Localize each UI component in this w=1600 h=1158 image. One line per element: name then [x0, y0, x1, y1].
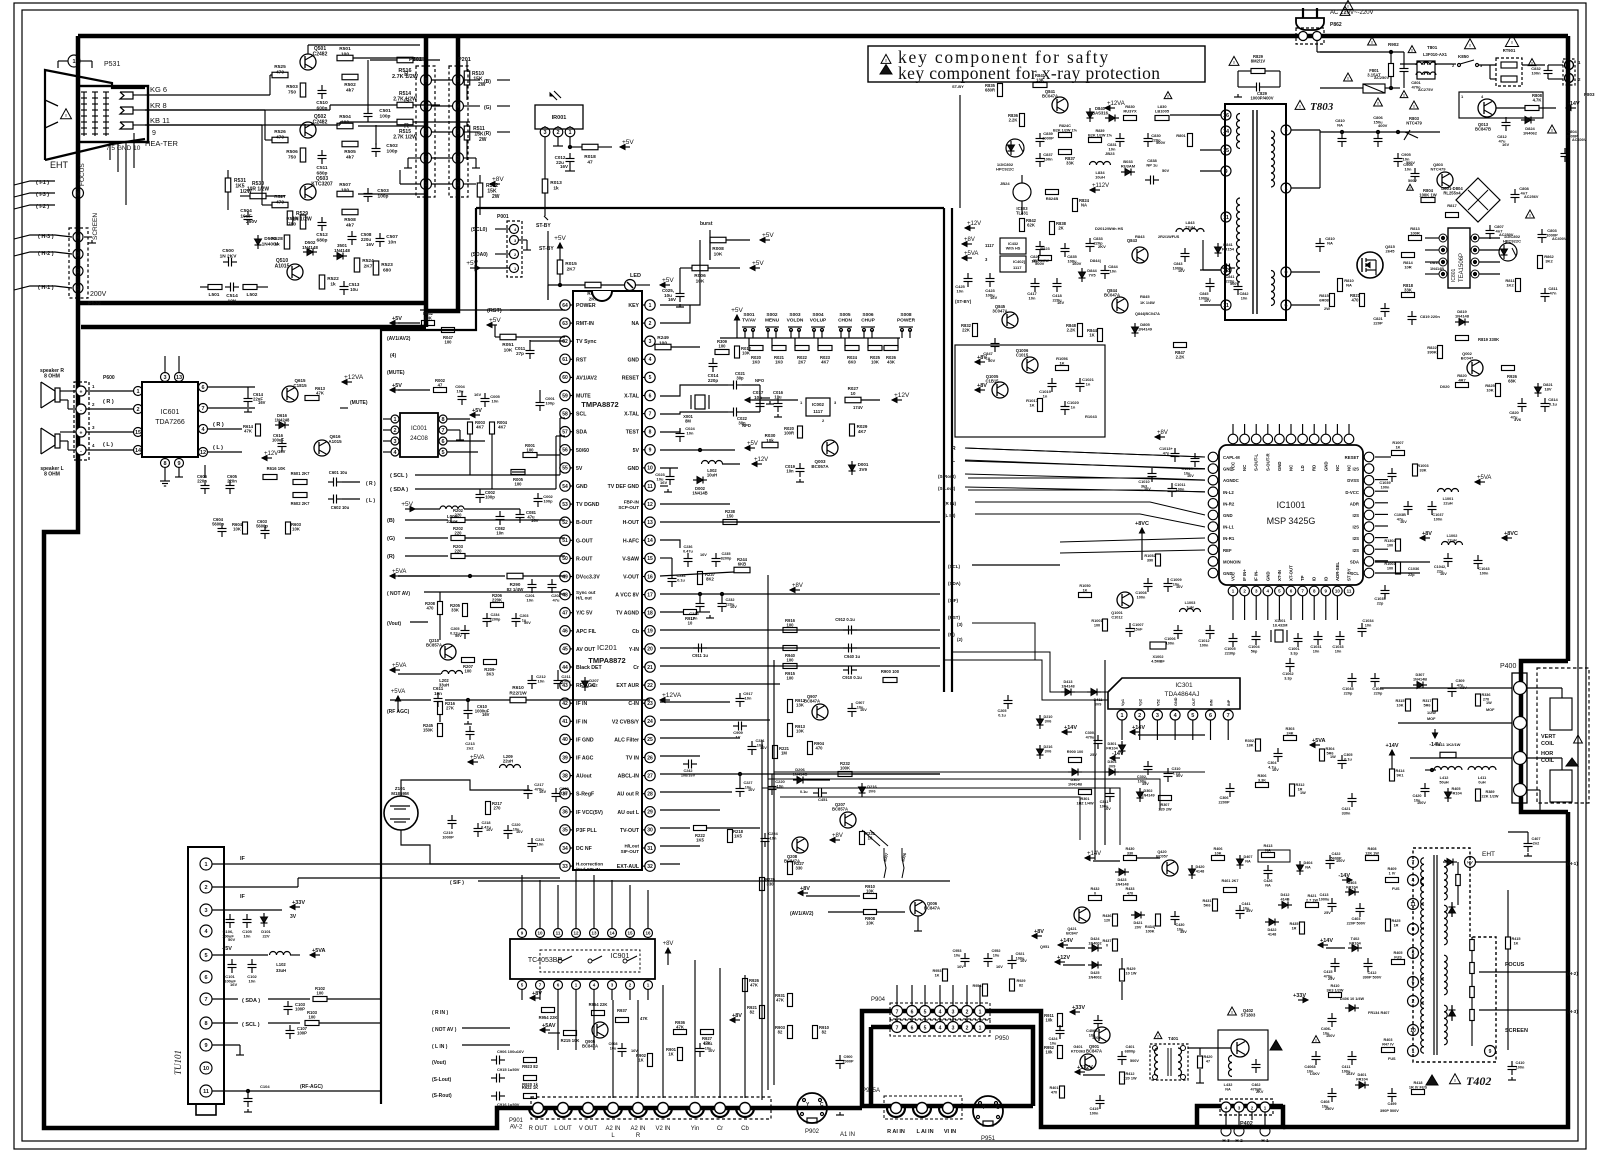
pwr +14V defl: [1085, 851, 1120, 861]
svg-text:IC001: IC001: [411, 426, 428, 432]
IC201 pin 23 C-IN: [628, 698, 655, 708]
pwr +8V r936: [730, 1013, 742, 1023]
resistor R421: [1306, 894, 1319, 908]
P402 pin 1: [1260, 1102, 1270, 1112]
resistor R810: [1338, 278, 1355, 292]
wire bus Rout: [965, 448, 1205, 469]
T402 pin 10: [1408, 1025, 1419, 1036]
svg-text:S006: S006: [862, 312, 874, 318]
label P901: [509, 1118, 524, 1131]
resistor R303: [1284, 727, 1297, 741]
T803 label: [1295, 100, 1334, 113]
cap C1009: [1164, 578, 1184, 592]
svg-text:9K1: 9K1: [1397, 773, 1404, 777]
svg-text:56: 56: [562, 448, 568, 454]
svg-text:100: 100: [1387, 566, 1393, 570]
T803 pin14: [1221, 126, 1231, 136]
svg-text:7 5 GND 10: 7 5 GND 10: [106, 145, 141, 152]
resistor R051: [495, 325, 565, 353]
svg-text:R AI IN: R AI IN: [887, 1129, 905, 1135]
wire msp right scl: [1375, 572, 1420, 574]
IC301 pin 4: [1170, 697, 1180, 740]
svg-text:L OUT: L OUT: [554, 1126, 572, 1132]
svg-text:24K: 24K: [1287, 731, 1294, 735]
svg-text:KTC3207: KTC3207: [311, 182, 333, 188]
IC1001 right pin 3: [1345, 487, 1373, 497]
cap C826: [1030, 241, 1044, 266]
svg-text:47p: 47p: [1163, 451, 1170, 455]
cap C451: [800, 789, 828, 803]
svg-text:2: 2: [456, 156, 459, 162]
connector P803: [1548, 59, 1595, 97]
wire z101 routing: [401, 830, 560, 864]
IC1001 top pin 10: [1344, 424, 1354, 471]
IC1001 top pin 8: [1321, 424, 1331, 471]
resistor R205: [450, 603, 468, 617]
net stby psu: [955, 299, 972, 304]
svg-text:+12V: +12V: [264, 451, 278, 457]
svg-text:IC901: IC901: [611, 953, 630, 960]
resistor R317: [1422, 699, 1437, 721]
svg-text:MUTE: MUTE: [576, 394, 591, 400]
diode D404: [1297, 861, 1314, 875]
svg-text:+5V: +5V: [554, 235, 566, 242]
diode D501: [333, 243, 350, 260]
IC1001 right pin 1: [1353, 464, 1374, 474]
svg-text:50: 50: [562, 556, 568, 562]
P501 pin3: [421, 127, 453, 138]
pwr q951 8v: [1032, 929, 1049, 949]
IC201 pin 7 X-TAL: [624, 408, 655, 418]
net RST flag: [487, 308, 540, 314]
P001 pin scl: [471, 225, 519, 234]
cap C803: [1526, 210, 1567, 243]
svg-text:680R: 680R: [985, 88, 995, 93]
svg-text:2: 2: [1138, 713, 1141, 719]
svg-text:10uF: 10uF: [240, 213, 251, 219]
svg-text:ALC Filter: ALC Filter: [614, 737, 639, 743]
svg-text:HPC922C: HPC922C: [1503, 239, 1521, 244]
svg-text:10n: 10n: [1313, 649, 1320, 653]
svg-text:RST: RST: [576, 357, 587, 363]
svg-text:500V: 500V: [1130, 1059, 1139, 1063]
svg-text:18K: 18K: [1247, 743, 1254, 747]
svg-text:CHDN: CHDN: [838, 317, 852, 323]
resistor R841: [1033, 73, 1047, 88]
T803 pin11a: [1221, 212, 1231, 222]
svg-text:(RST): (RST): [487, 308, 502, 314]
transistor Q013: [1459, 92, 1543, 132]
wire TVIN: [660, 755, 700, 757]
svg-text:120: 120: [1104, 918, 1110, 922]
svg-text:16V: 16V: [366, 242, 374, 247]
svg-text:IF AGC: IF AGC: [576, 756, 594, 762]
diode D413: [1061, 680, 1075, 696]
svg-text:16V: 16V: [660, 480, 667, 485]
svg-text:3V9: 3V9: [1109, 764, 1116, 768]
IC901 bottom pin 5: [608, 981, 617, 1001]
net SCL msp: [948, 564, 1060, 569]
svg-text:400V: 400V: [1378, 123, 1388, 128]
resistor R102: [313, 986, 380, 1002]
wire msp inl1: [1060, 538, 1205, 542]
svg-text:+8V: +8V: [492, 176, 504, 183]
svg-text:RESET: RESET: [1345, 455, 1360, 460]
svg-text:4R7: 4R7: [1458, 378, 1466, 383]
svg-text:10n: 10n: [786, 469, 794, 474]
svg-text:5: 5: [456, 78, 459, 84]
wire b line: [380, 57, 426, 59]
wire r line: [358, 193, 426, 195]
resistor R411: [1436, 742, 1461, 758]
svg-text:100: 100: [527, 448, 535, 453]
warn tri t801: [1452, 35, 1519, 64]
svg-text:10n: 10n: [745, 696, 752, 701]
svg-text:R018: R018: [584, 154, 596, 160]
svg-text:0: 0: [1412, 927, 1415, 933]
IC1001 left pin 7: [1208, 533, 1235, 543]
svg-text:P402: P402: [1240, 1121, 1253, 1127]
diode D216: [859, 783, 878, 797]
connector P904 dashed: [871, 997, 990, 1019]
cap C022: [728, 408, 751, 429]
diode D401: [1355, 1073, 1369, 1089]
svg-text:4K7: 4K7: [476, 425, 484, 430]
svg-text:16V: 16V: [748, 788, 755, 792]
IC1001 bottom pin 5: [1275, 570, 1285, 596]
svg-text:2200P: 2200P: [1219, 800, 1230, 804]
svg-text:BC057A: BC057A: [811, 464, 829, 469]
svg-text:5V: 5V: [576, 466, 583, 472]
net SCL flag: [390, 434, 470, 479]
svg-text:(S-Rout): (S-Rout): [432, 1093, 452, 1099]
vert coil label: [1541, 734, 1582, 747]
cap C024: [660, 426, 696, 442]
speaker L: [40, 428, 63, 478]
svg-text:P400: P400: [1500, 663, 1516, 670]
svg-text:+5V: +5V: [222, 946, 232, 952]
P950 pin 2: [962, 1022, 973, 1033]
svg-text:H-2: H-2: [1235, 1138, 1243, 1143]
svg-text:ABCL-IN: ABCL-IN: [618, 774, 640, 780]
label FOCUS vertical: [79, 163, 86, 186]
wire heavy top rail: [78, 34, 1568, 39]
resistor R820: [1440, 373, 1469, 389]
bridge D801-D804: [1441, 178, 1500, 222]
resistor R015: [557, 260, 577, 287]
svg-text:L501: L501: [209, 292, 220, 298]
TU101 pin7 wire: [212, 998, 310, 1004]
P501 pin4: [421, 101, 453, 112]
net H-3 p402: [1221, 1112, 1231, 1143]
TEA1506P left pin 0: [1425, 234, 1447, 242]
wire 12va rail: [390, 692, 682, 703]
resistor R249: [655, 335, 700, 350]
transistor Q502: [300, 114, 328, 138]
svg-text:( NOT AV ): ( NOT AV ): [432, 1027, 457, 1033]
svg-text:AC400V: AC400V: [1572, 138, 1587, 142]
diode D407: [1237, 855, 1253, 869]
svg-text:8: 8: [441, 417, 444, 423]
svg-text:680p: 680p: [317, 237, 328, 243]
IC201 pin 10 GND: [627, 463, 655, 473]
svg-text:4k7: 4k7: [346, 154, 354, 160]
TEA1506P left pin 3: [1425, 270, 1447, 278]
svg-text:100V: 100V: [1326, 1034, 1335, 1038]
IC901 top pin 7: [644, 890, 653, 938]
resistor R811: [1505, 278, 1520, 292]
svg-text:33K: 33K: [1066, 161, 1074, 166]
svg-text:100n: 100n: [1531, 71, 1541, 76]
cap C412: [1363, 958, 1382, 979]
jack P905A 2: [913, 1103, 931, 1118]
IC201 name: [581, 400, 625, 665]
svg-text:BC847B: BC847B: [1475, 127, 1491, 132]
svg-text:10n: 10n: [388, 239, 396, 245]
svg-text:1n: 1n: [1043, 394, 1048, 399]
svg-text:C906 100u16V: C906 100u16V: [497, 1049, 524, 1054]
svg-text:( R ): ( R ): [103, 399, 114, 405]
T402 primary winding: [1421, 858, 1424, 1053]
svg-text:13K: 13K: [796, 703, 804, 708]
net MUTE flag: [387, 370, 405, 376]
svg-text:35V: 35V: [1180, 930, 1187, 934]
wire heavy CRT bus v2: [426, 36, 458, 311]
svg-text:470: 470: [276, 69, 284, 75]
svg-text:+112V: +112V: [1092, 183, 1109, 189]
regulator IC432: [1000, 238, 1026, 254]
svg-text:16: 16: [647, 574, 653, 580]
diode D616: [275, 413, 290, 429]
svg-text:P501: P501: [409, 57, 422, 63]
resistor R818: [1402, 283, 1415, 298]
IC1001 right pin 2: [1347, 475, 1374, 485]
cap C407: [1508, 832, 1541, 856]
svg-text:10n: 10n: [770, 836, 777, 841]
svg-text:+5V: +5V: [466, 260, 478, 267]
resistor R900b: [1067, 750, 1083, 763]
svg-text:220 1W: 220 1W: [1123, 1076, 1137, 1080]
svg-text:Q844|BC047A: Q844|BC047A: [1135, 312, 1160, 316]
svg-text:AV-2: AV-2: [510, 1125, 523, 1131]
svg-text:1000P: 1000P: [442, 835, 454, 840]
cap C1033: [1332, 631, 1344, 653]
svg-text:1000u: 1000u: [1319, 897, 1330, 901]
transistor Q210: [426, 638, 456, 660]
wire crt kr row: [145, 110, 272, 140]
svg-text:16V: 16V: [474, 392, 481, 397]
IC601 pin14: [86, 446, 143, 455]
warn tri q402b: [1270, 1040, 1282, 1050]
svg-text:XT-IN: XT-IN: [1277, 570, 1282, 581]
svg-text:+8V: +8V: [1422, 531, 1432, 537]
resistor R927: [701, 1030, 714, 1046]
svg-text:9: 9: [1489, 1049, 1492, 1055]
resistor R227: [788, 861, 805, 875]
svg-text:48: 48: [562, 592, 568, 598]
svg-text:H-AFC: H-AFC: [623, 538, 639, 544]
svg-text:A1 IN: A1 IN: [840, 1132, 855, 1138]
IC301 pin 1: [1117, 699, 1127, 740]
cap C807: [1486, 224, 1514, 239]
svg-text:ST-BY: ST-BY: [952, 84, 964, 89]
svg-text:EXT-AUL: EXT-AUL: [617, 864, 640, 870]
IC201 pin 60 AV1/AV2: [560, 372, 597, 382]
wire gnd pin10: [660, 467, 678, 469]
svg-text:3V9: 3V9: [859, 467, 868, 472]
svg-text:HOR: HOR: [1541, 751, 1553, 757]
IC201 pin 8 TEST: [626, 427, 655, 437]
wire vsaw: [660, 558, 672, 573]
svg-text:GND: GND: [1223, 513, 1233, 518]
svg-text:IR001: IR001: [552, 115, 567, 121]
svg-text:+33V: +33V: [1293, 993, 1306, 999]
svg-text:(ST-BY): (ST-BY): [955, 299, 972, 304]
svg-text:10K: 10K: [1397, 703, 1404, 707]
net H-2 fly: [1479, 971, 1578, 977]
wire diag buses: [862, 830, 888, 846]
svg-text:+5V: +5V: [762, 232, 774, 239]
svg-text:10K: 10K: [866, 921, 874, 926]
svg-text:47K: 47K: [316, 391, 324, 396]
cap C831: [1107, 133, 1124, 152]
resistor R414: [1386, 743, 1406, 781]
svg-text:47: 47: [438, 383, 443, 388]
CRT cathode KB pin: [120, 122, 145, 129]
cap C011: [515, 340, 535, 359]
pwr +8V q208: [830, 833, 843, 843]
resistor R003: [468, 420, 486, 434]
svg-text:5: 5: [424, 78, 427, 84]
cap C217: [524, 782, 547, 799]
resistor R516: [370, 57, 440, 80]
svg-text:1: 1: [204, 862, 207, 868]
svg-text:S-OUT-R: S-OUT-R: [1265, 452, 1270, 471]
cap C805: [1403, 162, 1419, 183]
IR001 pin3: [540, 126, 550, 137]
minidin P902: [797, 1093, 827, 1135]
svg-text:12K 1W: 12K 1W: [1365, 851, 1379, 855]
pwr +5VA dvcc: [390, 569, 440, 579]
svg-text:C451: C451: [818, 797, 828, 802]
IC1001 top pin 9: [1333, 424, 1343, 471]
net R flag: [387, 554, 448, 560]
svg-text:50V: 50V: [1176, 774, 1183, 778]
cap C835: [1061, 243, 1082, 266]
resistor R021: [772, 346, 786, 365]
svg-text:R47 IV: R47 IV: [1382, 1042, 1394, 1046]
IC201 pin 54 GND: [560, 481, 588, 491]
svg-text:P001: P001: [497, 214, 509, 220]
wire EXT AUR: [660, 683, 780, 685]
svg-text:(SDA0): (SDA0): [471, 252, 488, 258]
transistor Q421: [1066, 907, 1090, 935]
wire q501 col: [308, 45, 420, 54]
IC001 pin2: [383, 426, 399, 434]
svg-text:R015: R015: [565, 261, 577, 267]
resistor R006: [692, 260, 764, 284]
svg-text:9: 9: [649, 448, 652, 454]
svg-text:100K: 100K: [1145, 929, 1154, 933]
svg-text:7: 7: [896, 1026, 899, 1032]
resistor R302: [1245, 739, 1261, 751]
svg-text:(S-Lout): (S-Lout): [938, 486, 956, 491]
IC901 top pin 1: [536, 880, 545, 938]
switch S008: [897, 312, 916, 338]
IC901 bottom pin 7: [644, 981, 653, 1001]
P201 pin2: [453, 153, 481, 169]
cap C842: [1234, 281, 1249, 300]
svg-text:29: 29: [647, 810, 653, 816]
cap C001: [536, 390, 556, 411]
connector P402 dashed: [1220, 1099, 1273, 1127]
svg-text:HPC922C: HPC922C: [996, 167, 1014, 172]
wire AUoutL: [660, 809, 720, 811]
wire z101 out: [401, 780, 530, 796]
svg-text:22p: 22p: [1377, 601, 1384, 605]
IC901 top pin 3: [572, 870, 581, 938]
net H-3 fly: [1479, 1009, 1578, 1015]
svg-text:16V: 16V: [486, 828, 493, 832]
svg-text:+14V: +14V: [1060, 938, 1073, 944]
svg-text:1uH: 1uH: [1186, 605, 1193, 609]
cap C1002: [1282, 658, 1294, 680]
svg-text:RT901: RT901: [1503, 48, 1516, 53]
cap C233: [689, 592, 704, 620]
connector P531 pin1: [58, 55, 120, 68]
svg-text:1/2W: 1/2W: [1427, 711, 1436, 715]
wire g line: [358, 125, 426, 127]
wire 5060: [512, 471, 525, 473]
cap C915: [491, 1067, 520, 1083]
P501 pin1: [400, 170, 452, 190]
cap C203: [512, 613, 532, 627]
ic TEA1506P box: [1448, 228, 1470, 288]
IC601 pin2: [86, 405, 143, 414]
diode D841: [1215, 242, 1235, 257]
wire V2CVBS: [660, 719, 770, 721]
svg-text:10: 10: [1410, 1028, 1416, 1034]
svg-text:17: 17: [647, 592, 653, 598]
P532 pin1: [14, 283, 83, 293]
cap C513: [340, 281, 360, 295]
svg-text:25V: 25V: [1324, 911, 1331, 915]
inductor L1003: [1180, 601, 1201, 612]
svg-text:R525: R525: [274, 64, 286, 70]
resistor R527: [272, 194, 288, 208]
resistor R1001b: [1384, 562, 1419, 577]
svg-text:+5V: +5V: [752, 260, 764, 267]
diode D411: [1087, 689, 1102, 707]
svg-text:Black DET: Black DET: [576, 665, 602, 671]
svg-text:1117: 1117: [1013, 265, 1022, 270]
svg-text:( R IN ): ( R IN ): [432, 1010, 448, 1016]
svg-text:4: 4: [1412, 878, 1415, 884]
svg-text:390: 390: [1147, 558, 1153, 562]
resistor R835: [985, 83, 1003, 97]
svg-text:5600p: 5600p: [212, 522, 224, 527]
svg-text:10n: 10n: [1109, 147, 1116, 152]
cap C242: [681, 760, 697, 778]
cap C420: [1412, 783, 1429, 805]
svg-text:ID: ID: [1312, 577, 1317, 581]
svg-text:D406 10 1/4W: D406 10 1/4W: [1340, 997, 1365, 1001]
T402 focus tap: [1470, 962, 1525, 974]
resistor R420: [1196, 1048, 1213, 1083]
svg-text:10: 10: [688, 621, 693, 626]
cap C409: [1380, 1088, 1399, 1113]
resistor R047: [442, 328, 471, 345]
